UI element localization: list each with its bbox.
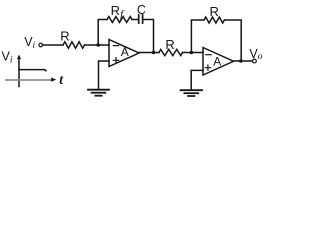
resistor R1 [63,42,85,48]
waveform graph horizontal axis t [6,79,52,81]
svg-text:R: R [210,4,219,19]
svg-text:Vo: Vo [249,47,262,62]
wire R1 to op-amp U1 inverting input [85,44,110,46]
node output dot [239,59,243,63]
node U2 inverting input dot [190,51,194,55]
svg-text:R: R [165,37,174,52]
node summing junction dot [96,43,100,47]
op-amp U1 [109,40,139,67]
node Vi input terminal [39,43,43,47]
waveform step Vi(t) [19,70,46,71]
resistor R3 feedback [204,17,224,23]
svg-text:Vi: Vi [2,49,13,65]
graph horizontal axis arrowhead [51,78,56,82]
wire U1 non-inverting input to ground [99,61,110,89]
svg-text:t: t [59,72,64,87]
wire U2 non-inverting input to ground [191,70,203,88]
wire U1 output to op-amp U2 input [139,52,159,54]
svg-text:A: A [121,45,129,59]
svg-text:A: A [213,54,221,68]
svg-text:C: C [137,3,146,17]
wire Rf to C [132,19,138,21]
wire U2 output to Vo terminal [234,60,253,62]
svg-text:Vi: Vi [24,35,35,51]
graph vertical axis arrowhead [17,55,21,60]
resistor R2 interstage [159,49,183,55]
node U1 output / feedback dot [152,51,156,55]
ground (U2) [181,90,202,96]
wire node up to feedback resistor R3 [191,20,204,53]
ground (U1) [88,90,109,96]
U2 plus sign [205,65,210,70]
waveform graph vertical axis [18,57,20,87]
wire R2 to U2 inverting input [183,52,204,54]
wire R3 down to output node [224,20,241,61]
node Vo output terminal [253,59,257,63]
U2 minus sign [206,54,211,56]
wire junction up to feedback rail [98,20,107,46]
U1 plus sign [113,58,118,63]
svg-text:R: R [60,28,69,43]
wire input to R1 [43,44,63,46]
resistor Rf [107,17,132,23]
capacitor C [139,15,143,23]
U1 minus sign [113,45,118,47]
op-amp U2 [203,48,234,76]
wire C down to U1 output node [143,20,153,53]
